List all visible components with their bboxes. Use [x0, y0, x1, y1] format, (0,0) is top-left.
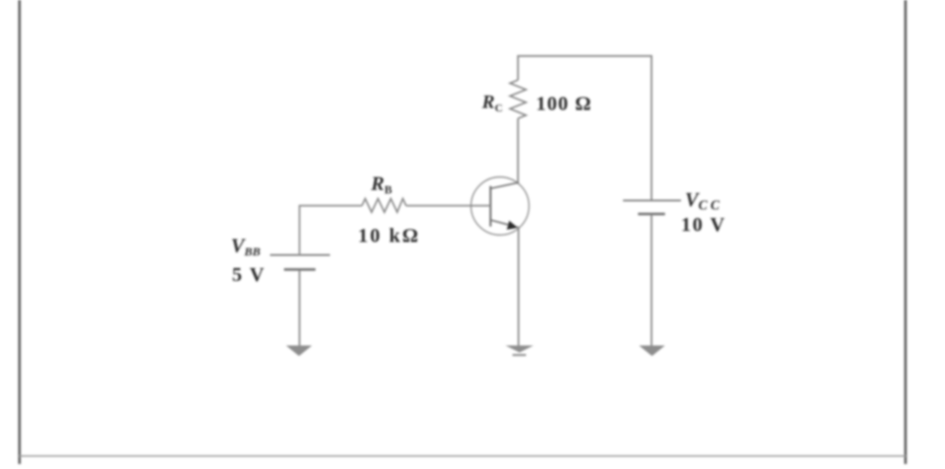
wire collector: [517, 118, 519, 184]
ground VBB: [286, 346, 312, 357]
svg-text:5 V: 5 V: [232, 264, 266, 286]
wire from Vbb to RB: [300, 206, 363, 254]
resistor RC: [510, 80, 526, 118]
emitter arrowhead: [507, 221, 518, 230]
border frame bottom: [19, 455, 906, 457]
resistor RB: [362, 199, 406, 213]
battery VCC plate -: [638, 213, 665, 216]
svg-text:100 Ω: 100 Ω: [536, 93, 592, 115]
border frame left: [18, 0, 21, 464]
wire base from RB: [406, 205, 491, 207]
wire top rail from Rc to Vcc: [518, 56, 652, 200]
wire Vcc to ground: [651, 215, 653, 347]
ground emitter: [506, 346, 534, 353]
ground VCC: [639, 346, 665, 357]
wire Vbb to ground: [299, 270, 301, 346]
svg-text:10 V: 10 V: [681, 214, 726, 236]
transistor Q1 circle: [471, 177, 529, 235]
transistor collector lead: [491, 183, 519, 189]
battery VBB plate +: [270, 254, 330, 256]
transistor emitter lead: [491, 220, 519, 228]
border frame right: [904, 0, 907, 464]
wire emitter to ground: [518, 227, 520, 346]
battery VBB plate -: [284, 268, 316, 271]
battery VCC plate +: [623, 200, 681, 202]
svg-text:10 kΩ: 10 kΩ: [358, 225, 420, 247]
transistor base bar: [490, 186, 492, 227]
